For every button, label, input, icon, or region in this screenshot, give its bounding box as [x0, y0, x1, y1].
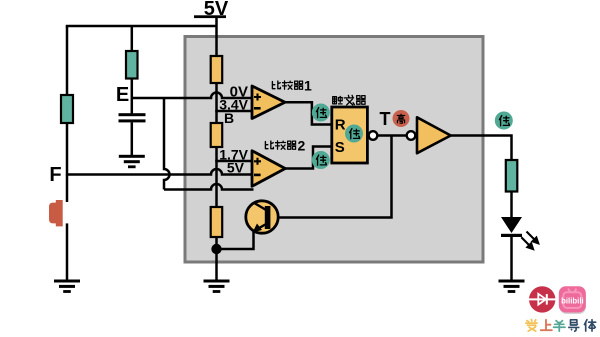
inverter bubble	[407, 131, 416, 140]
capacitor C1 bottom plate	[119, 119, 146, 122]
LED light arrow 2	[521, 237, 533, 249]
LED D1 triangle	[501, 217, 522, 233]
inverter U4	[417, 117, 451, 153]
svg-text:5V: 5V	[227, 160, 245, 176]
footer brand text	[526, 319, 596, 331]
svg-text:R: R	[335, 117, 346, 134]
power rail bar	[194, 15, 226, 18]
wire: node E branch down (hops F wire)	[164, 98, 169, 190]
IC internal block (555 body)	[185, 37, 483, 263]
logo: diode channel icon	[527, 286, 557, 312]
U2 - pin mark	[254, 174, 261, 177]
pushbutton S1 (red cap)	[49, 200, 63, 226]
wire: node F to pushbutton	[66, 175, 69, 203]
wire: E branch from top rail	[131, 26, 134, 51]
junction node dot	[211, 244, 221, 254]
resistor R2 (chain middle)	[211, 123, 223, 147]
label flip-flop	[333, 95, 366, 105]
wire: feedback from T node to Q1 base	[278, 136, 392, 218]
ground (pushbutton)	[54, 280, 80, 293]
wire: C1 to ground	[131, 122, 134, 156]
wire: inverter output to LED branch	[451, 136, 512, 161]
wire: R2 to R3	[215, 147, 218, 207]
svg-text:B: B	[224, 110, 234, 126]
wire: left branch upper	[66, 26, 69, 95]
wire: top rail	[66, 25, 217, 28]
low badge (S input)	[312, 151, 330, 169]
comparator U1	[252, 86, 285, 119]
wire: Q1 emitter to junction	[217, 231, 254, 249]
LED light arrow 1	[527, 232, 539, 244]
wire: node F net to comparator2 - (hops chain)	[67, 169, 252, 175]
high badge (node T)	[393, 110, 410, 127]
wire: R5 to node E	[131, 79, 134, 115]
wire: 5V bar down to resistor chain	[215, 18, 218, 56]
capacitor C1 top plate	[119, 113, 146, 116]
wire: R1 to R2	[215, 83, 218, 123]
wire: 1.7V tap to comparator2 +	[215, 160, 252, 163]
wire: node E / 0V net to comparator1 + (hops chain)	[132, 93, 252, 99]
ground (chain)	[204, 280, 230, 293]
resistor R4 (pull-up, left)	[61, 95, 73, 123]
U1 - pin mark	[254, 107, 261, 110]
U3 output bubble	[369, 131, 378, 140]
U1 + pin mark	[254, 94, 261, 101]
wire: U1 output to flip-flop R	[284, 102, 332, 124]
resistor R1 (chain top)	[211, 56, 223, 83]
wire: discharge path to Q1 collector (hops chain)	[164, 184, 254, 189]
wire: R6 to LED	[510, 192, 513, 218]
wire: U3 output to inverter	[377, 134, 406, 137]
wire: LED to ground	[510, 237, 513, 281]
resistor R6 (LED series)	[506, 160, 518, 192]
LED D1 cathode bar	[501, 234, 522, 237]
resistor R3 (chain bottom)	[211, 207, 223, 237]
ground (LED)	[499, 280, 525, 293]
low badge (U3 state)	[345, 125, 363, 143]
svg-text:E: E	[116, 84, 129, 106]
svg-text:S: S	[335, 139, 345, 156]
wire: R4 to node F	[66, 123, 69, 176]
svg-text:bilibili: bilibili	[561, 297, 584, 306]
svg-text:1: 1	[304, 78, 312, 94]
label comparator2	[265, 138, 305, 154]
comparator U2	[252, 151, 285, 187]
wire: 3.4V tap to comparator1 -	[215, 110, 252, 113]
wire: junction to ground	[215, 249, 218, 281]
wire: U2 output to flip-flop S	[284, 147, 332, 169]
low badge (R input)	[312, 104, 330, 122]
low badge (output)	[495, 112, 513, 130]
svg-text:2: 2	[298, 138, 306, 154]
label comparator1	[272, 78, 312, 94]
resistor R5 (timing)	[126, 51, 138, 79]
wire: R3 to junction	[215, 237, 218, 249]
svg-text:F: F	[49, 164, 61, 186]
ground (C1)	[119, 155, 145, 168]
wire: pushbutton to ground	[66, 223, 69, 281]
U2 + pin mark	[254, 158, 261, 165]
flip-flop U3	[332, 107, 368, 163]
transistor Q1 (discharge)	[246, 201, 278, 233]
logo: bilibili icon	[559, 286, 586, 314]
svg-text:T: T	[380, 109, 391, 129]
